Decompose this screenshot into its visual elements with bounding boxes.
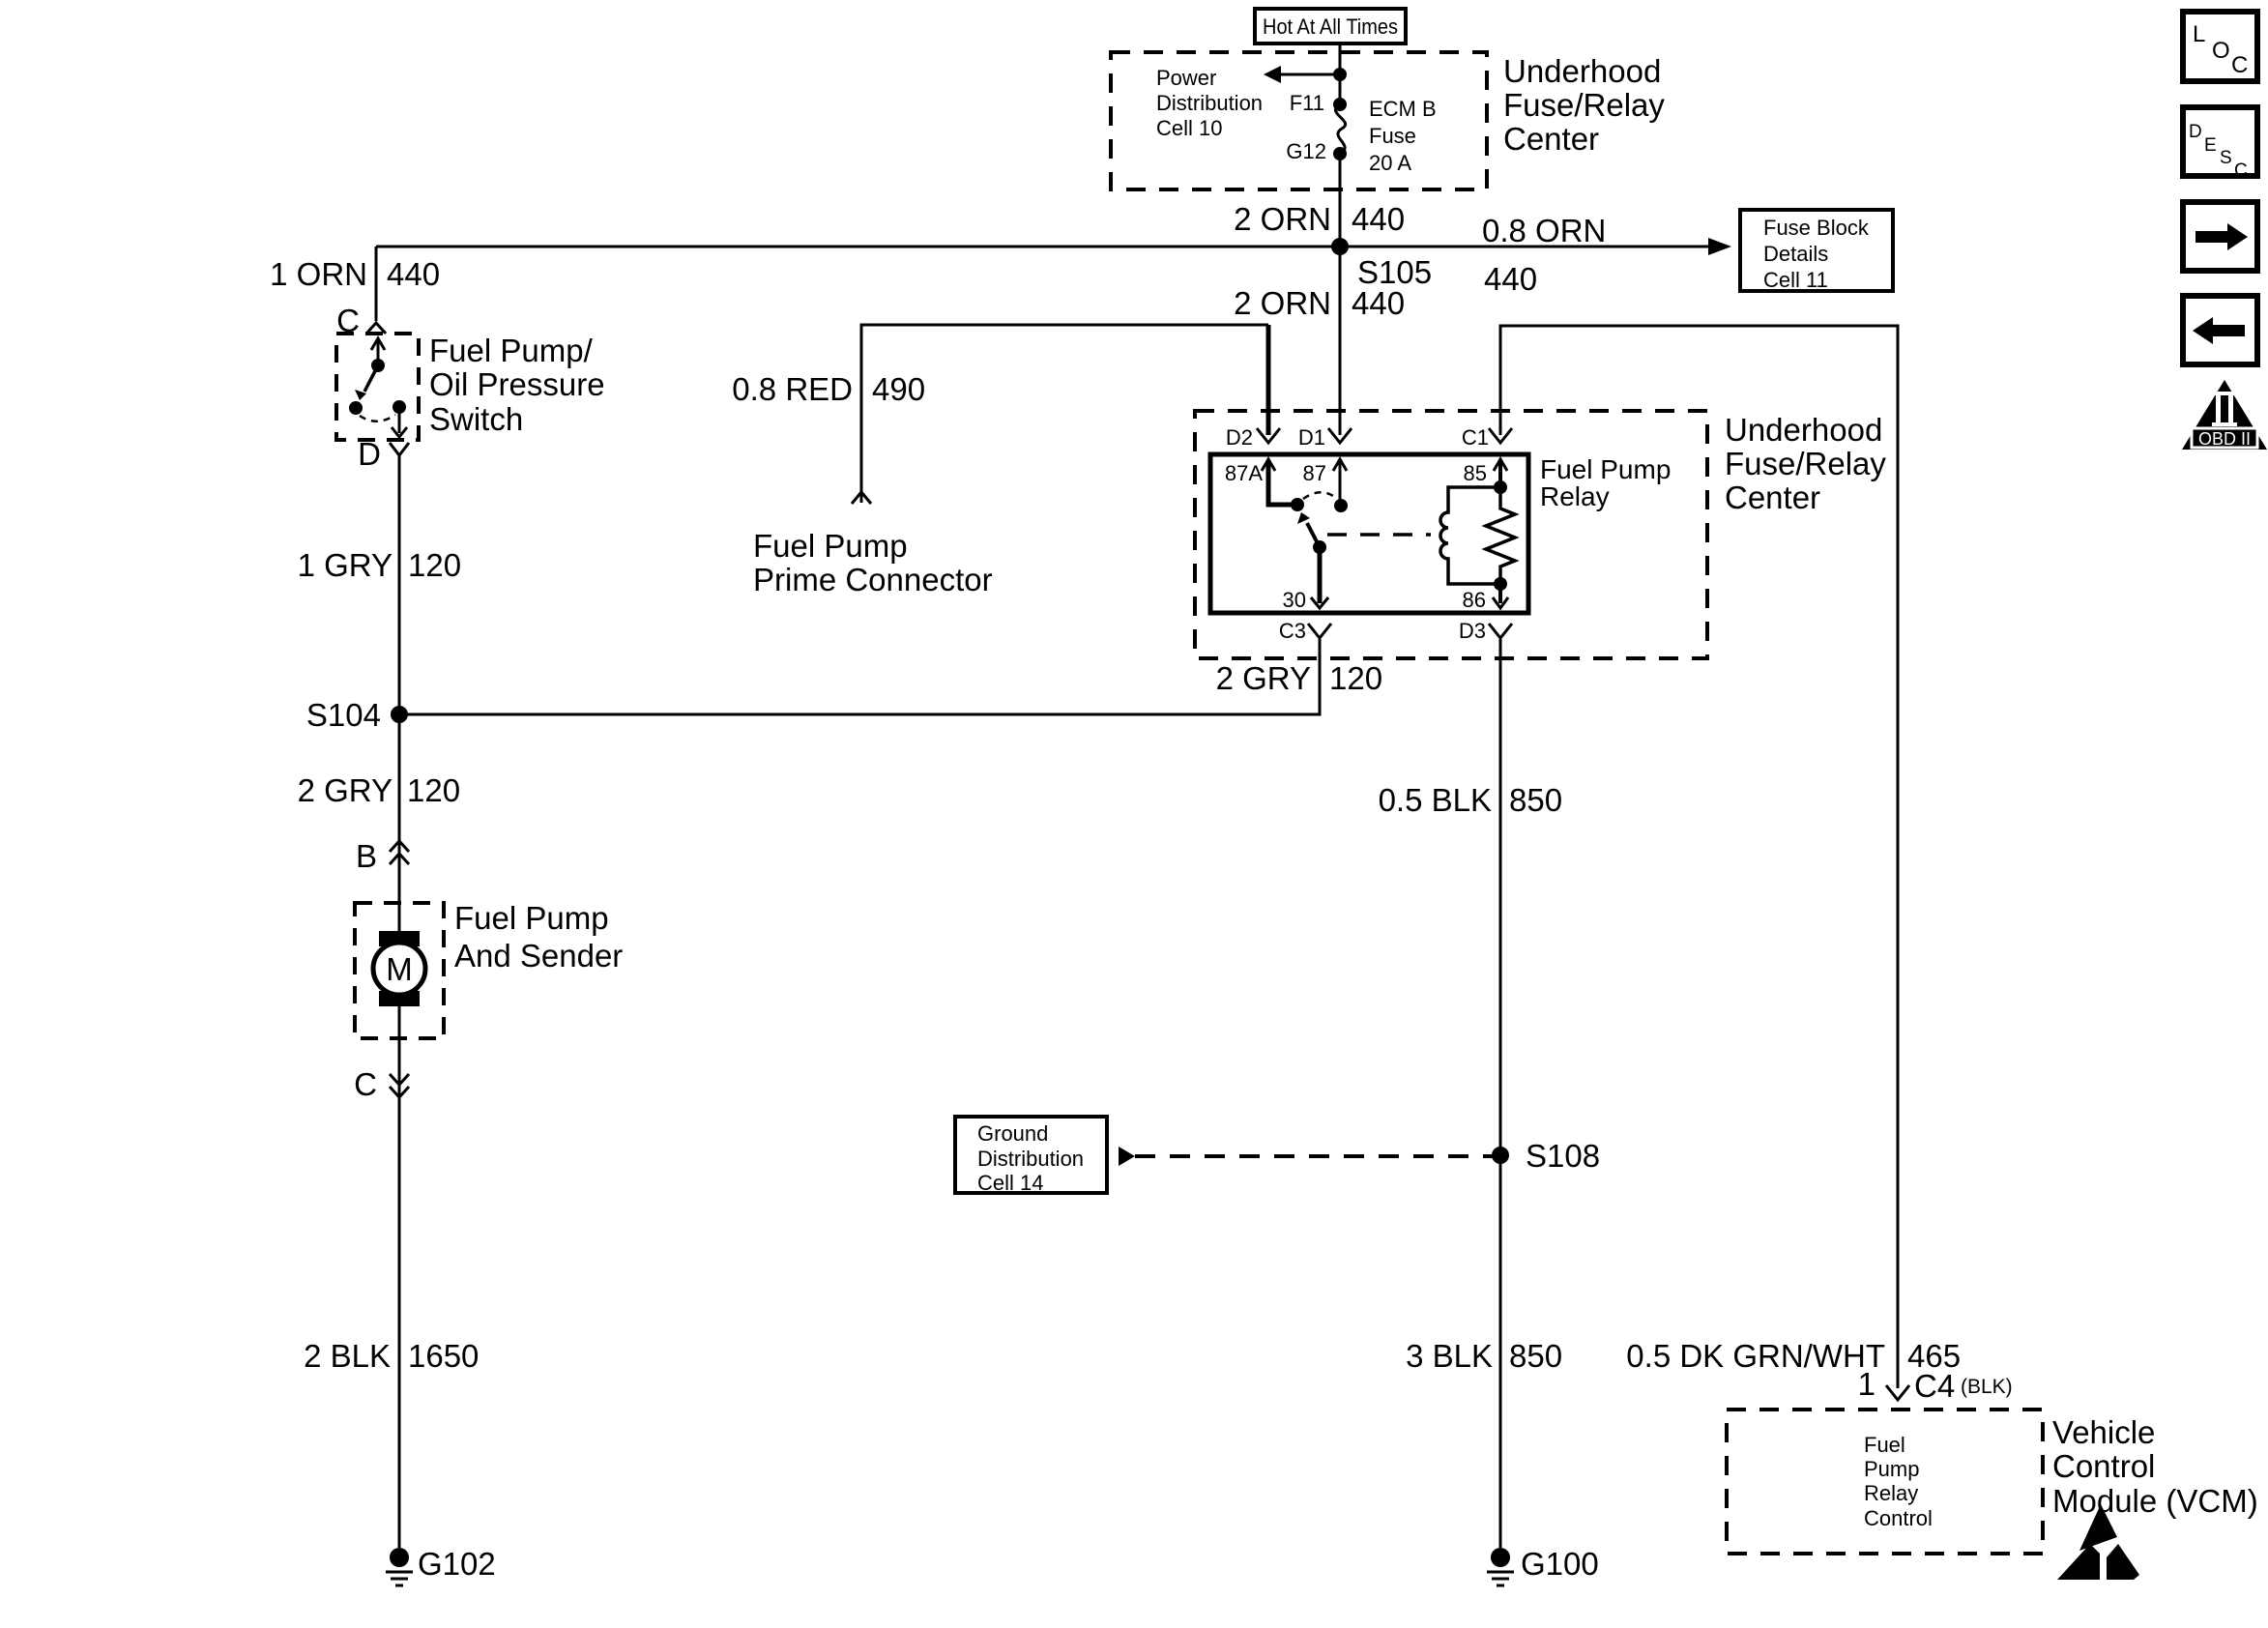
Fuse Block Details Cell 11 box <box>1740 210 1893 292</box>
ground G102 <box>386 1546 496 1585</box>
svg-text:Control: Control <box>2052 1448 2155 1484</box>
pin D1 connector <box>1328 428 1352 443</box>
pin C connector (below motor) <box>354 1066 409 1102</box>
svg-text:1: 1 <box>1858 1366 1875 1402</box>
svg-text:440: 440 <box>1352 201 1405 237</box>
icon DESC <box>2183 107 2257 181</box>
label Underhood Fuse/Relay Center (relay) <box>1725 412 1886 515</box>
svg-text:Fuel Pump: Fuel Pump <box>454 900 609 936</box>
svg-text:440: 440 <box>387 256 440 292</box>
svg-text:S: S <box>2220 148 2232 168</box>
switch contact arrow up <box>371 338 385 350</box>
svg-text:D1: D1 <box>1298 425 1325 450</box>
icon arrow right <box>2183 202 2257 271</box>
svg-text:B: B <box>356 838 377 874</box>
label 1 ORN 440 <box>270 256 440 292</box>
relay pin 87 <box>1303 459 1348 512</box>
Underhood Fuse/Relay Center dashed box (relay) <box>1195 411 1707 658</box>
label 0.8 ORN 440 <box>1482 213 1606 297</box>
wire D3 down to G100 <box>1499 639 1502 1548</box>
svg-text:C: C <box>2231 52 2248 78</box>
svg-text:Relay: Relay <box>1864 1481 1918 1505</box>
svg-text:G12: G12 <box>1286 139 1326 163</box>
svg-text:120: 120 <box>1329 660 1382 696</box>
svg-text:Cell 11: Cell 11 <box>1763 268 1828 292</box>
svg-text:Distribution: Distribution <box>977 1147 1084 1171</box>
svg-text:Switch: Switch <box>429 401 523 437</box>
relay coil <box>1440 487 1500 584</box>
Fuel Pump And Sender dashed box <box>355 903 444 1038</box>
svg-text:G100: G100 <box>1521 1546 1599 1582</box>
svg-text:Hot At All Times: Hot At All Times <box>1263 15 1398 39</box>
label 1 GRY 120 <box>298 547 462 583</box>
label 2 BLK 1650 <box>304 1338 479 1374</box>
svg-text:86: 86 <box>1463 588 1486 612</box>
svg-text:D: D <box>2189 122 2202 142</box>
label 2 ORN 440 (above S105) <box>1234 201 1405 237</box>
svg-text:30: 30 <box>1283 588 1306 612</box>
Fuel Pump / Oil Pressure Switch dashed box <box>336 334 419 440</box>
svg-text:2 GRY: 2 GRY <box>298 772 393 808</box>
switch arm <box>364 365 378 392</box>
svg-text:Prime Connector: Prime Connector <box>753 562 993 597</box>
wire S104 to relay C3 <box>399 639 1320 714</box>
pin prime connector <box>852 492 871 504</box>
svg-text:440: 440 <box>1352 285 1405 321</box>
label Fuel Pump Prime Connector <box>753 528 993 597</box>
svg-text:85: 85 <box>1464 461 1487 485</box>
relay switch arm <box>1307 523 1320 547</box>
svg-text:Underhood: Underhood <box>1725 412 1882 448</box>
node S104 <box>391 706 408 723</box>
pin B connector <box>356 838 409 874</box>
svg-text:G102: G102 <box>418 1546 496 1582</box>
svg-text:M: M <box>386 951 413 987</box>
svg-text:Cell 10: Cell 10 <box>1156 116 1222 140</box>
label Underhood Fuse/Relay Center (top) <box>1503 53 1665 157</box>
label Power Distribution Cell 10 <box>1156 66 1263 140</box>
svg-text:2 BLK: 2 BLK <box>304 1338 391 1374</box>
wire arrow to power distribution <box>1278 73 1340 76</box>
pin C1 connector <box>1489 428 1512 443</box>
svg-text:Fuse Block: Fuse Block <box>1763 216 1870 240</box>
svg-text:Module (VCM): Module (VCM) <box>2052 1483 2258 1519</box>
fuse ECM B 20A <box>1333 98 1347 160</box>
icon OBD II triangle <box>2182 380 2267 450</box>
wire C1 up over to VCM C4 <box>1500 326 1898 1388</box>
relay pin 30 <box>1283 547 1328 612</box>
node S105 <box>1331 238 1349 255</box>
pin C connector <box>366 323 386 334</box>
label 0.5 BLK 850 <box>1379 782 1562 818</box>
relay switch dashed throw arc <box>1303 492 1336 499</box>
svg-text:And Sender: And Sender <box>454 938 623 974</box>
svg-text:Underhood: Underhood <box>1503 53 1661 89</box>
svg-text:S108: S108 <box>1526 1138 1600 1174</box>
svg-text:Power: Power <box>1156 66 1216 90</box>
svg-text:Fuel Pump: Fuel Pump <box>753 528 908 564</box>
wire Hot At All Times down to fuse <box>1339 44 1342 104</box>
icon arrow left <box>2183 296 2257 364</box>
svg-text:C: C <box>2234 160 2248 181</box>
svg-text:850: 850 <box>1509 1338 1562 1374</box>
motor M fuel pump <box>373 931 425 1006</box>
svg-text:2 GRY: 2 GRY <box>1216 660 1311 696</box>
svg-text:Fuel: Fuel <box>1864 1433 1905 1457</box>
svg-text:Cell 14: Cell 14 <box>977 1171 1043 1195</box>
svg-text:O: O <box>2212 38 2230 64</box>
svg-text:L: L <box>2193 21 2205 47</box>
wire dashed link to S108 <box>1119 1147 1135 1166</box>
relay pin 85 <box>1464 459 1507 494</box>
relay pin 86 <box>1463 577 1508 612</box>
wire D to S104 <box>398 455 401 1548</box>
svg-text:Details: Details <box>1763 242 1828 266</box>
relay resistor <box>1486 487 1515 584</box>
svg-text:0.5 BLK: 0.5 BLK <box>1379 782 1492 818</box>
svg-text:E: E <box>2204 135 2217 156</box>
svg-text:0.8 ORN: 0.8 ORN <box>1482 213 1606 248</box>
svg-text:120: 120 <box>408 547 461 583</box>
svg-text:1 ORN: 1 ORN <box>270 256 367 292</box>
svg-text:Vehicle: Vehicle <box>2052 1414 2155 1450</box>
label Fuel Pump Relay Control <box>1864 1433 1933 1530</box>
relay coil control dashed line <box>1327 533 1431 537</box>
svg-text:Control: Control <box>1864 1506 1933 1530</box>
pin C3 connector <box>1279 619 1331 643</box>
wire arrow into fuse block details <box>1708 238 1731 255</box>
svg-text:Fuel Pump: Fuel Pump <box>1540 454 1671 484</box>
svg-text:D3: D3 <box>1459 619 1486 643</box>
ESD symbol <box>2057 1504 2139 1580</box>
svg-text:S104: S104 <box>306 697 381 733</box>
svg-text:Ground: Ground <box>977 1121 1048 1146</box>
svg-text:Fuse: Fuse <box>1369 124 1416 148</box>
svg-text:850: 850 <box>1509 782 1562 818</box>
wire 0.8 RED to prime connector and D2 <box>861 325 1268 503</box>
label 2 ORN 440 (below S105) <box>1234 285 1405 321</box>
svg-text:(BLK): (BLK) <box>1961 1376 2013 1398</box>
node S108 <box>1492 1147 1509 1164</box>
svg-text:C4: C4 <box>1914 1368 1955 1404</box>
svg-text:Relay: Relay <box>1540 481 1610 511</box>
svg-text:87: 87 <box>1303 461 1326 485</box>
relay box Fuel Pump Relay <box>1210 454 1528 613</box>
Underhood Fuse/Relay Center dashed box (power distribution) <box>1111 52 1487 189</box>
pin D3 connector <box>1459 619 1512 643</box>
svg-text:0.8 RED: 0.8 RED <box>732 371 853 407</box>
label 3 BLK 850 <box>1406 1338 1562 1374</box>
svg-text:440: 440 <box>1484 261 1537 297</box>
switch dashed throw arc <box>360 415 395 422</box>
svg-text:2 ORN: 2 ORN <box>1234 201 1331 237</box>
switch contact arrow down <box>398 407 401 433</box>
svg-text:Pump: Pump <box>1864 1457 1919 1481</box>
svg-text:OBD II: OBD II <box>2198 429 2251 449</box>
icon LOC <box>2183 12 2257 81</box>
svg-text:Center: Center <box>1725 480 1820 515</box>
label Vehicle Control Module (VCM) <box>2052 1414 2258 1519</box>
svg-text:Oil Pressure: Oil Pressure <box>429 366 605 402</box>
ground G100 <box>1487 1546 1599 1585</box>
svg-text:Fuse/Relay: Fuse/Relay <box>1725 446 1886 481</box>
label ECM B Fuse 20 A <box>1369 97 1437 175</box>
svg-text:C3: C3 <box>1279 619 1306 643</box>
wire bus down to connector C <box>375 247 378 321</box>
svg-text:Distribution: Distribution <box>1156 91 1263 115</box>
Vehicle Control Module dashed box <box>1727 1410 2043 1554</box>
pin D2 connector <box>1257 428 1280 443</box>
svg-text:490: 490 <box>872 371 925 407</box>
svg-text:1650: 1650 <box>408 1338 479 1374</box>
svg-text:Fuel Pump/: Fuel Pump/ <box>429 333 594 368</box>
label 0.5 DK GRN/WHT 465 <box>1626 1338 1961 1374</box>
label 0.8 RED 490 <box>732 371 925 407</box>
label 2 GRY 120 (relay) <box>1216 660 1383 696</box>
Ground Distribution Cell 14 box <box>955 1117 1107 1195</box>
wire main bus (1 ORN 440 / 0.8 ORN 440) <box>376 246 1709 248</box>
svg-text:D: D <box>358 436 381 472</box>
svg-text:0.5 DK GRN/WHT: 0.5 DK GRN/WHT <box>1626 1338 1885 1374</box>
wire fuse down to S105 and on to D1 <box>1339 154 1342 435</box>
svg-text:3 BLK: 3 BLK <box>1406 1338 1493 1374</box>
node junction at arrow <box>1333 68 1347 81</box>
svg-text:F11: F11 <box>1290 91 1324 115</box>
svg-text:Fuse/Relay: Fuse/Relay <box>1503 87 1665 123</box>
svg-text:87A: 87A <box>1225 461 1263 485</box>
pin D connector <box>390 443 409 455</box>
label 2 GRY 120 <box>298 772 461 808</box>
svg-text:1 GRY: 1 GRY <box>298 547 393 583</box>
svg-text:ECM B: ECM B <box>1369 97 1437 121</box>
svg-text:2 ORN: 2 ORN <box>1234 285 1331 321</box>
svg-text:Center: Center <box>1503 121 1599 157</box>
Hot At All Times box <box>1255 9 1406 44</box>
relay pin 87A <box>1225 459 1304 511</box>
svg-text:120: 120 <box>407 772 460 808</box>
svg-text:D2: D2 <box>1226 425 1253 450</box>
pin 1 C4 (BLK) connector <box>1858 1366 2013 1404</box>
svg-text:C1: C1 <box>1462 425 1489 450</box>
svg-text:20 A: 20 A <box>1369 151 1411 175</box>
svg-text:C: C <box>354 1066 377 1102</box>
